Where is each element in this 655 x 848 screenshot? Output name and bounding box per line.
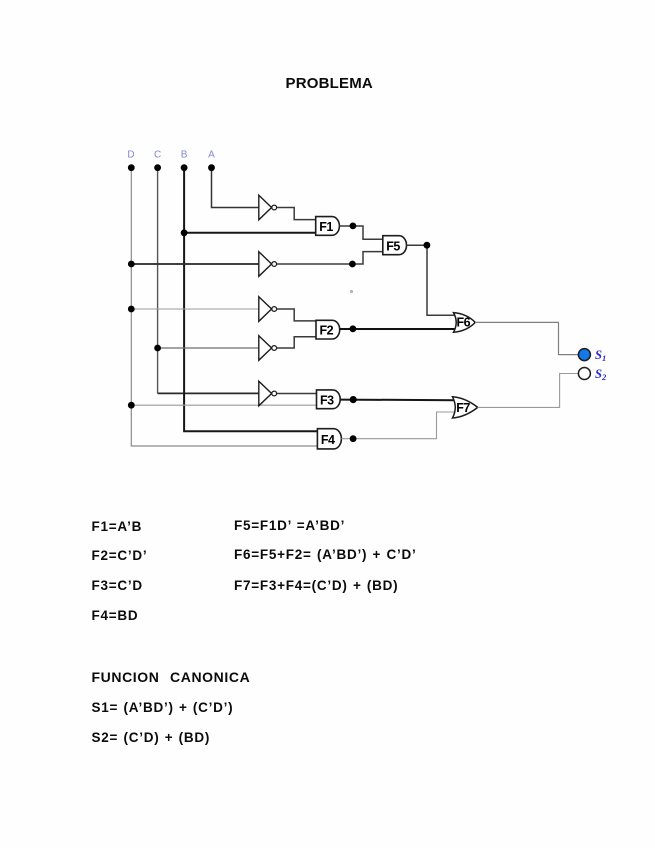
and-gate F3 bbox=[317, 390, 341, 409]
inverter U3 (D') bbox=[259, 297, 277, 322]
or-gate F7 bbox=[453, 397, 478, 418]
junction dot D-U2 bbox=[128, 261, 135, 268]
inverter U1 (A') bbox=[259, 195, 277, 220]
wire F4 to F7 bbox=[341, 412, 456, 439]
wire inverter U5 to F3 bbox=[277, 393, 317, 395]
junction dot F3 output bbox=[350, 396, 357, 403]
junction dot F1 output bbox=[350, 223, 357, 230]
node D label bbox=[127, 150, 134, 161]
inverter U5 (C') bbox=[259, 381, 277, 406]
node A terminal dot bbox=[208, 164, 215, 171]
svg-text:F5: F5 bbox=[386, 239, 400, 253]
heading FUNCION CANONICA bbox=[92, 669, 251, 685]
junction dot U2 output bbox=[349, 261, 356, 268]
svg-text:F4: F4 bbox=[321, 433, 335, 447]
junction dot B-F1 bbox=[181, 229, 188, 236]
junction dot F4 output bbox=[350, 435, 357, 442]
equation F7 bbox=[234, 578, 398, 593]
junction dot C-U4 bbox=[154, 345, 161, 352]
node B label bbox=[181, 150, 188, 161]
wire D to inverter U2 bbox=[131, 263, 258, 265]
junction dot D-F3 bbox=[128, 402, 135, 409]
wire C to inverter U4 bbox=[158, 347, 259, 349]
and-gate F2 bbox=[316, 320, 340, 339]
wire F2 to F6 bbox=[340, 328, 458, 330]
wire D to and-gate F3 bbox=[131, 404, 316, 406]
svg-text:F1: F1 bbox=[319, 220, 333, 234]
svg-text:C: C bbox=[154, 150, 161, 161]
wire F1 to F5 bbox=[339, 226, 382, 239]
node B terminal dot bbox=[181, 164, 188, 171]
node C label bbox=[154, 150, 161, 161]
output S1 label bbox=[595, 348, 606, 363]
svg-text:S1: S1 bbox=[595, 348, 606, 363]
equation F5 bbox=[234, 518, 345, 533]
svg-text:A: A bbox=[208, 150, 215, 161]
equation F6 bbox=[234, 547, 416, 562]
svg-text:B: B bbox=[181, 150, 188, 161]
wire B to and-gate F1 bbox=[184, 232, 316, 234]
wire F6 to output S1 bbox=[475, 322, 578, 354]
stray mark bbox=[350, 290, 353, 293]
svg-text:S2: S2 bbox=[595, 367, 607, 382]
wire input B vertical bbox=[184, 168, 317, 432]
equation F2 bbox=[92, 548, 148, 563]
output S1 terminal bbox=[578, 349, 590, 361]
wire inverter U4 to F2 bbox=[277, 337, 316, 348]
output S2 terminal bbox=[578, 368, 590, 380]
title PROBLEMA bbox=[286, 75, 373, 92]
equation S2 bbox=[92, 730, 211, 745]
and-gate F1 bbox=[316, 217, 340, 236]
inverter U4 (C') bbox=[259, 336, 277, 361]
junction dot D-U3 bbox=[128, 306, 135, 313]
equation F4 bbox=[92, 608, 139, 623]
svg-text:F6: F6 bbox=[457, 316, 471, 330]
wire inverter U1 to F1 bbox=[277, 208, 316, 220]
svg-text:F2: F2 bbox=[320, 324, 334, 338]
wire input D vertical bbox=[131, 168, 317, 446]
wire C to inverter U5 bbox=[158, 392, 259, 394]
wire inverter U2 to F5 bbox=[277, 252, 383, 264]
equation F1 bbox=[92, 519, 143, 534]
svg-text:D: D bbox=[127, 150, 134, 161]
node D terminal dot bbox=[128, 164, 135, 171]
wire F3 to F7 bbox=[340, 399, 456, 402]
wire F7 to output S2 bbox=[478, 374, 579, 408]
wire F5 to F6 bbox=[407, 245, 458, 315]
or-gate F6 bbox=[454, 313, 476, 333]
inverter U2 (D') bbox=[259, 252, 277, 277]
junction dot F2 output bbox=[350, 325, 357, 332]
node A label bbox=[208, 150, 215, 161]
output S2 label bbox=[595, 367, 607, 382]
equation S1 bbox=[92, 700, 234, 715]
svg-text:F3: F3 bbox=[320, 393, 334, 407]
wire D to inverter U3 bbox=[131, 308, 258, 310]
and-gate F5 bbox=[383, 236, 407, 255]
node C terminal dot bbox=[154, 164, 161, 171]
wire input C vertical bbox=[157, 168, 159, 394]
svg-text:F7: F7 bbox=[456, 401, 470, 415]
equation F3 bbox=[92, 578, 143, 593]
wire inverter U3 to F2 bbox=[277, 309, 316, 321]
junction dot F5 output bbox=[424, 242, 431, 249]
and-gate F4 bbox=[317, 429, 341, 449]
wire input A to inverter U1 bbox=[212, 168, 259, 208]
